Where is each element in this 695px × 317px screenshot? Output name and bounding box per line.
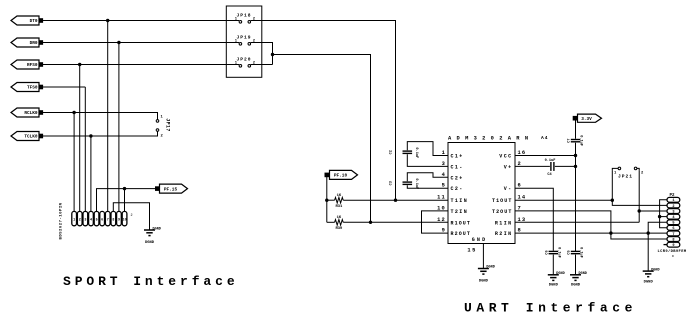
svg-text:7: 7 <box>672 233 674 237</box>
svg-text:15: 15 <box>467 248 477 254</box>
svg-text:LCR9/DB9FEM: LCR9/DB9FEM <box>658 249 687 254</box>
svg-text:VCC: VCC <box>499 154 512 160</box>
capacitor C2 (C1+ / C1-) <box>390 142 449 167</box>
wire header pin8 to ground <box>113 203 149 230</box>
wire T1OUT to P2 pin2 <box>612 200 667 205</box>
capacitor C3 (C2+ / C2-) <box>390 173 449 189</box>
svg-text:2: 2 <box>672 205 674 209</box>
svg-text:DT0: DT0 <box>30 19 38 24</box>
wire TFS0 vertical bus to header pin3 <box>84 87 86 211</box>
wire T2OUT row <box>515 211 667 239</box>
svg-text:TCLK0: TCLK0 <box>24 135 38 140</box>
svg-text:JP17: JP17 <box>165 118 171 132</box>
flag PF15 <box>156 184 188 193</box>
wire R2IN row to P2 pin7 <box>515 232 667 234</box>
wire PF flag vertical <box>326 177 328 222</box>
junction JP21.2/R1IN to P2 pin3 <box>638 209 641 212</box>
svg-text:R2IN: R2IN <box>495 231 513 237</box>
wire R1IN net to P2 pin3 <box>639 210 667 212</box>
jumper JP17 <box>156 116 170 139</box>
svg-text:DGND: DGND <box>556 272 564 276</box>
svg-text:RFS0: RFS0 <box>27 63 38 68</box>
svg-text:DGND: DGND <box>153 227 161 231</box>
svg-text:C6: C6 <box>545 250 549 254</box>
wire DR0 row <box>43 42 227 44</box>
svg-text:DGND: DGND <box>651 268 659 272</box>
svg-text:TFS0: TFS0 <box>27 86 38 91</box>
wire VCC row <box>515 155 576 157</box>
svg-text:PF.10: PF.10 <box>334 174 348 179</box>
svg-text:JP20: JP20 <box>236 56 251 62</box>
IC pin names right <box>492 154 513 238</box>
flag RCLK0 <box>11 108 43 117</box>
flag DT0 <box>11 16 43 25</box>
svg-text:JP21: JP21 <box>618 174 633 180</box>
svg-text:DGND: DGND <box>479 280 489 284</box>
junction JP19/JP20 tie <box>271 53 274 56</box>
svg-text:C2+: C2+ <box>451 175 464 181</box>
header J1 10-pin <box>60 202 133 239</box>
svg-text:A4: A4 <box>541 135 549 141</box>
svg-text:DGND: DGND <box>644 281 654 285</box>
wire JP21 pin2 drop <box>638 170 640 222</box>
wire JP20 output <box>262 64 273 66</box>
svg-text:JP19: JP19 <box>236 34 251 40</box>
svg-text:11: 11 <box>437 195 446 201</box>
svg-text:2: 2 <box>79 219 81 223</box>
junction T2OUT/R2IN <box>609 231 612 234</box>
svg-text:DR0: DR0 <box>30 41 38 46</box>
ground GND C5 <box>570 272 587 288</box>
svg-text:T1OUT: T1OUT <box>492 198 513 204</box>
wire RCLK0 row to JP17 <box>43 113 158 120</box>
ground GND header <box>144 227 161 245</box>
ground GND C6 <box>548 272 565 288</box>
svg-text:PF.15: PF.15 <box>164 187 178 192</box>
junction RCLK0 bus <box>72 111 75 114</box>
junction pin10 tap <box>123 187 126 190</box>
capacitor C7 (VCC bypass) <box>568 120 583 251</box>
svg-text:GND: GND <box>472 237 488 243</box>
svg-text:5: 5 <box>672 222 674 226</box>
svg-text:R1OUT: R1OUT <box>451 220 472 226</box>
svg-text:1K: 1K <box>337 216 342 220</box>
wire IC GND pin15 <box>482 244 484 269</box>
jumper JP19 <box>226 34 261 45</box>
capacitor C5 (to ground) <box>568 247 583 274</box>
svg-text:ADM3202ARN: ADM3202ARN <box>448 136 533 142</box>
svg-text:6: 6 <box>672 227 674 231</box>
wire T2IN/R2OUT loopback <box>422 211 449 233</box>
svg-text:1K: 1K <box>337 194 342 198</box>
svg-text:DGND: DGND <box>571 284 581 288</box>
svg-text:R31: R31 <box>335 205 343 209</box>
svg-text:3.3V: 3.3V <box>581 117 592 122</box>
wire header pin5 to PF flag <box>97 189 158 212</box>
svg-text:0.1uF: 0.1uF <box>414 147 418 158</box>
svg-text:6: 6 <box>101 219 103 223</box>
wire T1OUT row <box>515 199 612 201</box>
svg-text:1: 1 <box>73 219 75 223</box>
wire TFS0 row <box>43 86 86 88</box>
junction DT0 bus <box>106 19 109 22</box>
svg-text:T2IN: T2IN <box>451 209 469 215</box>
svg-text:3: 3 <box>672 210 674 214</box>
wire DT0 vertical bus to header pin7 <box>107 21 109 212</box>
svg-text:5: 5 <box>96 219 98 223</box>
svg-text:12: 12 <box>437 217 446 223</box>
svg-text:1: 1 <box>672 199 674 203</box>
wire JP19 output <box>262 43 273 65</box>
resistor R31 <box>327 194 343 209</box>
svg-text:4: 4 <box>90 219 92 223</box>
wire pin10 drop <box>124 189 126 212</box>
svg-text:C2: C2 <box>390 150 394 154</box>
svg-text:SPORT Interface: SPORT Interface <box>63 274 239 289</box>
jumper JP18 <box>226 12 261 23</box>
wire P2 tie bracket pins 1/4/6 <box>658 200 667 228</box>
svg-text:DGND: DGND <box>486 266 494 270</box>
wire R1IN row <box>515 221 639 223</box>
junction TCLK0 bus <box>89 134 92 137</box>
svg-text:8: 8 <box>672 238 674 242</box>
svg-text:JP18: JP18 <box>236 12 251 18</box>
wire DT0 row <box>43 20 227 22</box>
svg-text:V+: V+ <box>504 164 513 170</box>
flag PF10 (to series resistors) <box>325 170 358 179</box>
wire P2 pin5 ground <box>648 222 667 270</box>
wire DR0 vertical bus to header pin9 <box>118 43 120 212</box>
junction PF to R31 row <box>325 199 328 202</box>
ground GND pin15 <box>478 266 495 284</box>
capacitor C6 (V- to ground) <box>545 247 560 274</box>
svg-text:R1IN: R1IN <box>495 220 513 226</box>
svg-text:3: 3 <box>84 219 86 223</box>
svg-text:C5: C5 <box>568 250 572 254</box>
svg-text:C1-: C1- <box>451 164 464 170</box>
svg-text:C7: C7 <box>568 138 572 142</box>
wire R30 to R1OUT pin12 <box>343 221 448 223</box>
wire RFS0 vertical bus to header pin2 <box>79 65 81 212</box>
svg-text:T1IN: T1IN <box>451 198 469 204</box>
wire TCLK0 row to JP17 <box>43 131 158 136</box>
svg-text:C3: C3 <box>390 181 394 185</box>
svg-text:DGND: DGND <box>145 241 155 245</box>
connector block JP18/JP19/JP20 box <box>226 6 261 77</box>
svg-text:DGND: DGND <box>579 272 587 276</box>
IC pin numbers right <box>518 150 527 234</box>
IC pin numbers left <box>437 150 446 234</box>
svg-text:0.1uF: 0.1uF <box>579 247 583 258</box>
flag TFS0 <box>11 83 43 92</box>
svg-text:R2OUT: R2OUT <box>451 231 472 237</box>
wire V- to C6 <box>515 188 553 251</box>
svg-text:C1+: C1+ <box>451 154 464 160</box>
junction JP18 net to T1IN <box>394 199 397 202</box>
capacitor C4 (V+ series) <box>515 159 576 177</box>
op-amp U1 : IC A4 ADM3202ARN body <box>448 143 515 244</box>
connector P2 DB9 <box>658 194 687 257</box>
svg-text:UART Interface: UART Interface <box>464 300 637 315</box>
wire RCLK0 vertical bus to header pin1 <box>73 113 75 212</box>
svg-text:V-: V- <box>504 186 513 192</box>
svg-text:DGND: DGND <box>549 284 559 288</box>
flag DR0 <box>11 38 43 47</box>
svg-text:RCLK0: RCLK0 <box>24 111 38 116</box>
junction R2IN/GND drop <box>647 231 650 234</box>
junction JP19/20 net to R1OUT <box>369 221 372 224</box>
jumper JP20 <box>226 56 261 67</box>
svg-text:7: 7 <box>107 219 109 223</box>
svg-text:R30: R30 <box>335 227 343 231</box>
jumper JP21 <box>612 167 644 180</box>
flag TCLK0 <box>11 132 43 141</box>
svg-text:9: 9 <box>118 219 120 223</box>
svg-text:0.1uF: 0.1uF <box>414 178 418 189</box>
junction T1OUT/JP21.1 <box>611 199 614 202</box>
wire JP21 pin1 drop <box>611 170 613 200</box>
flag 3.3V <box>573 114 601 122</box>
wire TCLK0 vertical bus to header pin4 <box>90 136 92 211</box>
wire RFS0 row <box>43 64 227 66</box>
svg-text:9: 9 <box>672 244 674 248</box>
flag RFS0 <box>11 60 43 69</box>
svg-text:2: 2 <box>131 214 133 218</box>
svg-text:C2-: C2- <box>451 186 464 192</box>
ground GND P2 <box>643 268 660 284</box>
svg-text:8: 8 <box>112 219 114 223</box>
svg-text:0.1uF: 0.1uF <box>579 135 583 146</box>
junction V+ net <box>574 165 577 168</box>
wire JP19/JP20 net to R1OUT <box>273 55 371 223</box>
IC pin names left <box>451 154 472 238</box>
junction DR0 bus <box>117 41 120 44</box>
wire R31 to T1IN pin11 <box>343 199 448 201</box>
wire JP18 output to T1IN net <box>262 21 396 201</box>
svg-text:0.1uF: 0.1uF <box>557 247 561 258</box>
resistor R30 <box>327 216 343 231</box>
junction RFS0 bus <box>78 63 81 66</box>
svg-text:10: 10 <box>123 219 127 223</box>
junction VCC net <box>574 154 577 157</box>
svg-text:0.1uF: 0.1uF <box>545 159 556 163</box>
svg-text:BDS2027-10PIN: BDS2027-10PIN <box>60 202 64 239</box>
svg-text:T2OUT: T2OUT <box>492 209 513 215</box>
